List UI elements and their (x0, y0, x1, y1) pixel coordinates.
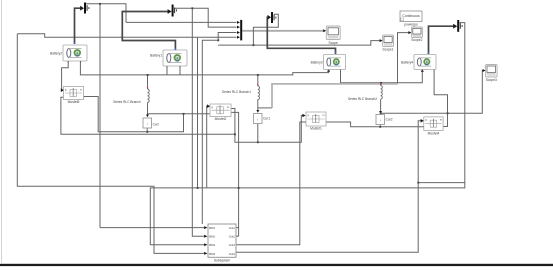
battery Battery2 (50, 42, 87, 63)
wire coil2 drop from bus (257, 75, 259, 86)
node cur1 bottom junction (257, 141, 259, 143)
wire Cur2 bottom drop (379, 125, 381, 127)
node G2 tap In2 riser junction (191, 7, 193, 9)
svg-text:Battery2: Battery2 (50, 52, 62, 56)
svg-text:Battery3: Battery3 (311, 61, 323, 65)
resistor-inductor Series RLC Branch1 coil (258, 86, 260, 101)
svg-text:Out1: Out1 (229, 226, 236, 230)
scope Scope1 (382, 35, 393, 51)
battery Battery1 (150, 48, 187, 68)
wire RLC branch coil1 drop from bus to Curr (147, 75, 149, 89)
arrow into mosfet4 gate (421, 119, 424, 123)
svg-text:Curr: Curr (153, 123, 160, 127)
wire battery4 right port to mosfet4 right-bottom (434, 71, 447, 127)
wire thick battery4 to ground G5 (429, 26, 455, 54)
ground G2 (172, 5, 177, 17)
svg-text:Scope1: Scope1 (382, 47, 393, 51)
arrow into Scope (323, 29, 326, 32)
svg-text:Cur1: Cur1 (263, 117, 270, 121)
wire left tall net x=17.3 down to y=186.3 then to In4 (17, 34, 205, 254)
wire ground G4 top tap hook to scope1 feeder (253, 14, 278, 45)
node out4 riser branch junction (417, 182, 419, 184)
arrow up into battery3 left port (327, 69, 330, 72)
arrow mux input 3 (237, 31, 240, 34)
svg-text:Mosfet1: Mosfet1 (310, 127, 322, 131)
wire battery2 right port to main bus y=74.9 (80, 62, 328, 75)
node bus-coil2 junction (257, 74, 259, 76)
bottom window bar (0, 264, 553, 266)
ground G4 (271, 12, 276, 23)
svg-text:BM3: BM3 (209, 243, 215, 247)
wire mosfet1 left-bottom to Out3 (236, 122, 306, 245)
wire Cur1 node left link y=107.9 (258, 107, 272, 109)
block powergui (400, 11, 422, 26)
svg-text:Battery1: Battery1 (150, 54, 162, 58)
ground G1 (84, 3, 89, 14)
arrow into subsystem In1 (204, 226, 207, 229)
sensor Cur1 (254, 114, 271, 124)
node y187.9 and x238.6 junction (238, 187, 240, 189)
resistor-inductor Series RLC Branch coil (148, 89, 150, 105)
node battery4-line crossing scope3 line (447, 112, 449, 114)
svg-text:Out2: Out2 (229, 235, 236, 239)
block Subsystem (208, 224, 236, 263)
battery Battery4 (401, 52, 436, 72)
arrow into ground G1 (80, 6, 84, 11)
wire Out1 stub (236, 227, 238, 229)
svg-text:Mosfet5: Mosfet5 (68, 100, 80, 104)
arrow into ground G2 (168, 9, 172, 14)
wire coil3 tap to bus3 (380, 83, 382, 86)
arrow into subsystem In2 (204, 235, 207, 238)
node y187.9 and x197.5 junction (197, 187, 199, 189)
wire mux input 4 line from left with jog (17, 34, 236, 38)
arrow down into Curr top (146, 115, 149, 118)
arrow into ground G5 (453, 24, 457, 29)
arrow mux input 2 (237, 26, 240, 29)
arrow into Scope2 (408, 31, 411, 34)
transistor Mosfet4 (424, 117, 443, 135)
arrow mux input 4 (237, 36, 240, 39)
node scope1 feeder branch (253, 44, 255, 46)
transistor Mosfet5 (64, 87, 84, 104)
wire mux output to Scope (242, 30, 324, 32)
wire ground G1 top tap to mux input 1 (86, 4, 126, 23)
wire Out4 to mosfet4 gate riser (236, 121, 421, 252)
svg-text:powergui: powergui (404, 22, 418, 26)
arrow down into Cur1 top (256, 110, 259, 113)
arrow into subsystem In3 (204, 243, 207, 246)
wire mux input 3 feeder (202, 33, 236, 225)
svg-text:Scope3: Scope3 (486, 78, 497, 82)
node G1 tap In1 riser junction (99, 3, 101, 5)
node curr bottom junction (146, 131, 148, 133)
sensor Curr (143, 118, 160, 128)
wire thick battery1 to ground G2 (122, 12, 175, 50)
wire Cur2 top node to scope3 line y=113.2 (381, 71, 485, 114)
arrow up into battery4 left port (421, 69, 424, 72)
wire battery1 right port stub to bus (179, 67, 181, 75)
svg-text:Cur2: Cur2 (386, 118, 393, 122)
ground G5 (457, 20, 462, 32)
wire battery2 left port to mosfet5 gate (62, 62, 69, 91)
scope Scope2 (411, 27, 422, 42)
wire Curr bottom to rail R1 (146, 128, 148, 132)
svg-text:Battery4: Battery4 (401, 61, 413, 65)
wire thick battery2 to ground G1 (75, 8, 82, 44)
wire In3 net from ground G5: x=464.8 vertical, y=187.9 horizontal (150, 23, 465, 245)
node rail R2 junction on mosfet2 vertical (234, 133, 236, 135)
node coil3-bus3 junction (380, 82, 382, 84)
svg-text:m: m (227, 106, 229, 109)
wire In1 long horizontal (100, 227, 205, 229)
node cur2 bottom junction (379, 126, 381, 128)
wire coil2 bottom to Cur1 top (257, 101, 259, 112)
transistor Mosfet2 (210, 104, 231, 121)
node bus-coil1 junction (147, 74, 149, 76)
svg-text:m: m (323, 114, 325, 117)
svg-text:BM4: BM4 (209, 252, 215, 256)
arrow into mosfet2 gate (207, 104, 210, 108)
arrow into mosfet5 gate (61, 88, 64, 92)
svg-text:m: m (80, 88, 82, 91)
wire Out2 stub (236, 235, 238, 237)
wire mosfet2 right-top to mosfet1 gate via y=142.2 (231, 109, 305, 143)
arrow down into Cur2 top (379, 111, 382, 114)
arrow into Scope3 (483, 69, 486, 72)
arrow into ground G4 (268, 15, 272, 20)
left window border (1, 0, 3, 263)
svg-text:Scope2: Scope2 (411, 38, 422, 42)
wire vertical x=197.5 between mux4 line and y=187.9 (197, 37, 199, 188)
node cur2-scope3 line junction (380, 112, 382, 114)
battery Battery3 (311, 52, 346, 72)
wire coil1 bottom to Curr top (147, 105, 149, 116)
node rail R1 junction on RLC1 line (183, 113, 185, 115)
svg-text:Series RLC Branch: Series RLC Branch (113, 100, 141, 104)
transistor Mosfet1 (306, 112, 326, 131)
wire mosfet2 right-bottom / Out riser x=238.6 (231, 112, 238, 236)
svg-text:Out4: Out4 (229, 252, 236, 256)
node mux3 feeder corner junction (217, 39, 219, 41)
wire battery1 left port stub to bus (166, 67, 168, 75)
scope Scope (326, 26, 340, 45)
wire mosfet1 right-bottom to mosfet4 left-bottom rail (326, 122, 424, 127)
svg-text:m: m (440, 119, 442, 122)
wire thick battery3 to ground G4 (267, 17, 335, 54)
wire In2 riser x=192.3 (192, 8, 205, 236)
svg-text:BM2: BM2 (209, 235, 215, 239)
mux Mux4 bar (240, 20, 242, 41)
wire scope2 riser from thick gray line (398, 33, 410, 84)
svg-text:Scope: Scope (329, 41, 339, 45)
svg-text:Series RLC Branch2: Series RLC Branch2 (348, 97, 377, 101)
wire Out4 riser branch to x=464.8 at y=182.6 (418, 182, 465, 184)
wire Cur1 bottom drop (257, 124, 259, 143)
svg-text:Out3: Out3 (229, 243, 236, 247)
svg-text:Subsystem: Subsystem (214, 259, 231, 263)
svg-text:Continuous: Continuous (402, 14, 419, 18)
arrow into Scope1 (380, 39, 383, 42)
resistor-inductor Series RLC Branch2 coil (381, 86, 383, 100)
wire rail R1 mosfet5 right-bottom loop to RLC1 line (84, 97, 184, 132)
arrow mux input 1 (237, 21, 240, 24)
wire RLC1 node to mosfet2 drain y=113.8 (148, 113, 210, 115)
svg-text:Mosfet4: Mosfet4 (428, 131, 440, 135)
sensor Cur2 (376, 115, 393, 125)
wire net In1 riser x=100 (99, 4, 101, 228)
svg-text:Mosfet2: Mosfet2 (215, 117, 227, 121)
arrow into subsystem In4 (204, 252, 207, 255)
wire scope1 feeder y=45.1 (218, 41, 381, 46)
wire mosfet2 gate feeder x=206.7 (207, 106, 210, 188)
arrow into mosfet1 gate (302, 114, 305, 118)
wire ground G2 top tap to mux input 2 (175, 8, 237, 27)
svg-text:Series RLC Branch1: Series RLC Branch1 (222, 90, 251, 94)
wire mux input 1 long line (126, 21, 237, 23)
wire battery3 right port to battery4 left port (341, 71, 423, 83)
svg-text:BM1: BM1 (209, 226, 215, 230)
wire rail R2 mosfet5 left-bottom to x=234.9 (61, 97, 235, 134)
scope Scope3 (486, 65, 498, 83)
wire coil3 bottom to Cur2 top (380, 100, 382, 113)
wire light-gray thick link Cur1 node to scope2 riser (272, 84, 398, 108)
